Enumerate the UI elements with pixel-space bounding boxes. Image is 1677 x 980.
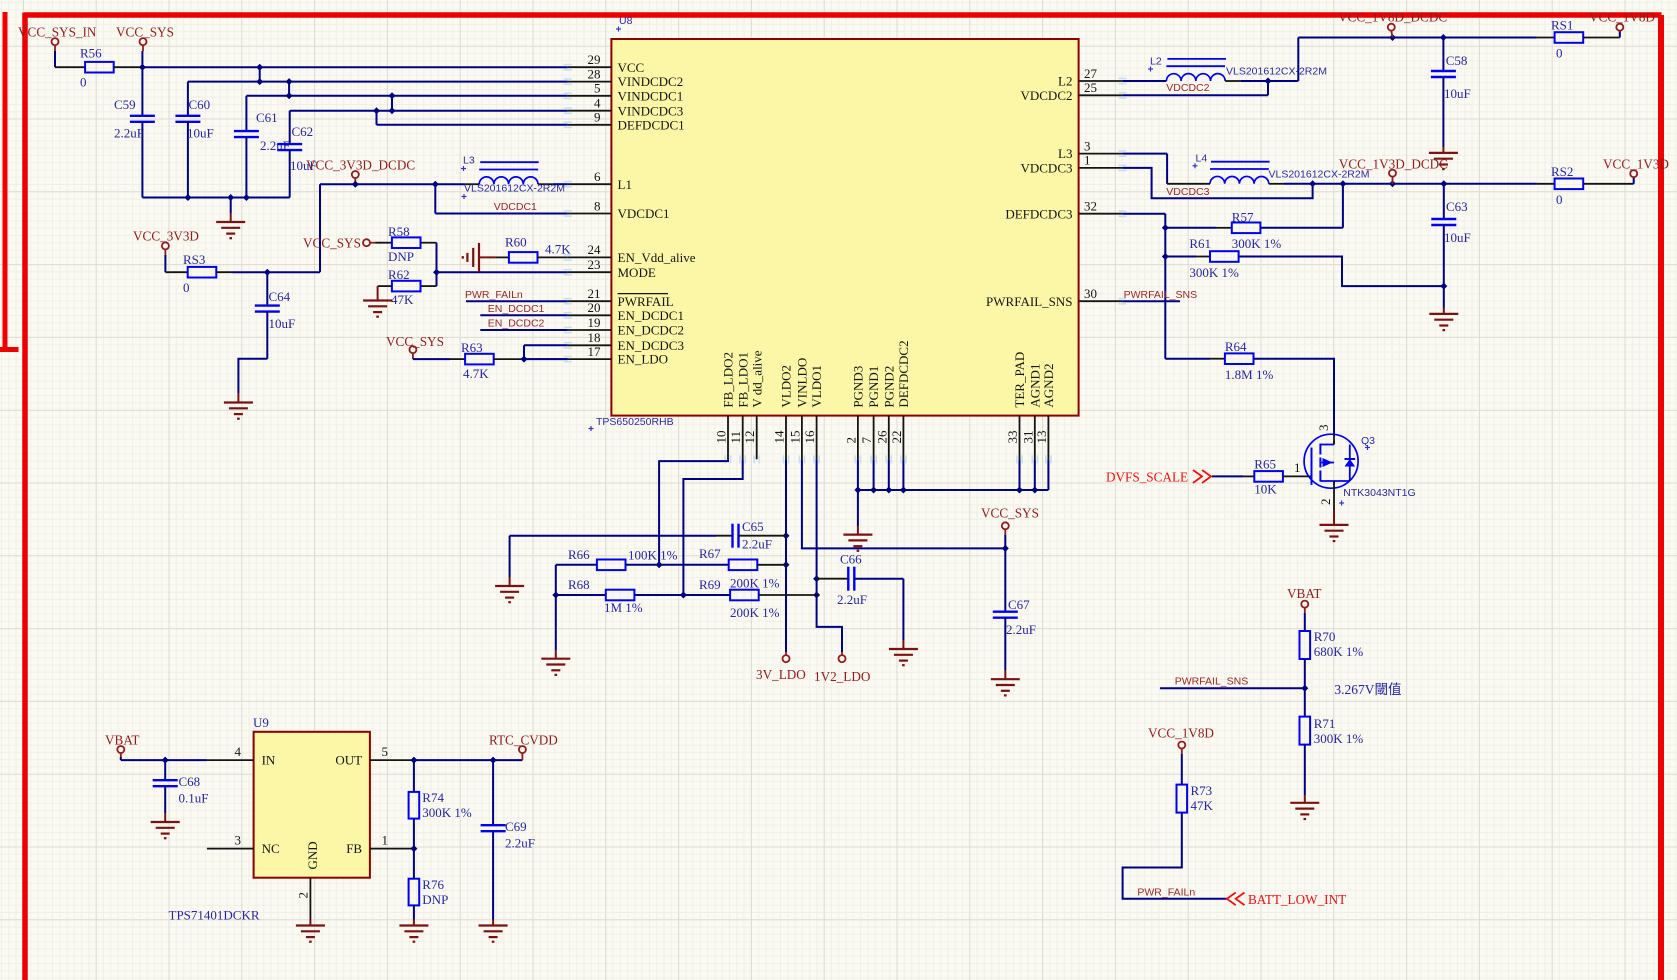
U8 pin 27 (L2) (1058, 66, 1126, 89)
svg-text:23: 23 (588, 257, 601, 272)
wire VCC_SYS to C67 (1004, 535, 1006, 612)
power port VCC_SYS (R63) (386, 334, 444, 359)
U8 pin 6 (L1) (564, 169, 632, 192)
svg-text:C63: C63 (1446, 199, 1468, 214)
wire pin drop (1047, 459, 1049, 490)
net label EN_DCDC1 (488, 303, 545, 315)
svg-text:4: 4 (235, 744, 242, 759)
net label EN_DCDC2 (488, 318, 545, 330)
svg-text:TPS71401DCKR: TPS71401DCKR (169, 908, 260, 923)
wire R56 to VCC_SYS node (114, 66, 143, 68)
U8 pin 10 (FB_LDO2) (714, 352, 736, 463)
resistor R65 (1254, 457, 1283, 497)
svg-text:47K: 47K (1191, 798, 1214, 813)
svg-text:R65: R65 (1254, 457, 1276, 472)
U8 pin 23 (MODE) (564, 257, 656, 280)
resistor R76 (409, 849, 449, 907)
svg-text:2.2uF: 2.2uF (505, 836, 535, 851)
svg-text:EN_DCDC2: EN_DCDC2 (488, 318, 545, 330)
wire RS1 to VCC_1V8D (1583, 31, 1620, 38)
wire R62 to ground (378, 286, 392, 300)
svg-text:VCC_1V8D: VCC_1V8D (1148, 725, 1214, 740)
svg-text:EN_DCDC1: EN_DCDC1 (488, 303, 545, 315)
svg-text:VINDCDC3: VINDCDC3 (618, 103, 684, 118)
junction (1031, 487, 1038, 494)
svg-text:NTK3043NT1G: NTK3043NT1G (1343, 487, 1415, 499)
svg-text:VINDCDC2: VINDCDC2 (618, 74, 684, 89)
ground (U9 GND) (296, 920, 325, 942)
wire tie VCC-VINDCDC2 (259, 67, 261, 81)
junction (1440, 180, 1447, 187)
junction (1309, 180, 1316, 187)
svg-text:VCC_1V8D: VCC_1V8D (1589, 10, 1655, 25)
svg-text:2: 2 (1318, 499, 1333, 506)
svg-text:R74: R74 (422, 790, 444, 805)
ground (R60, rotated) (463, 243, 496, 272)
U9 pin 1 (FB) (346, 833, 413, 857)
wire C66 to ground (902, 579, 904, 649)
svg-text:1V2_LDO: 1V2_LDO (814, 669, 870, 684)
junction (656, 561, 663, 568)
U8 pin 12 (V dd_alive) (742, 350, 764, 463)
svg-text:VCC: VCC (618, 60, 645, 75)
svg-text:RTC_CVDD: RTC_CVDD (489, 732, 558, 747)
power port VCC_1V8D (1589, 10, 1655, 31)
capacitor C67 (993, 597, 1036, 670)
resistor R63 (413, 340, 494, 381)
svg-text:FB_LDO2: FB_LDO2 (721, 352, 736, 408)
wire R66/R68 tie (555, 565, 557, 595)
svg-text:4.7K: 4.7K (463, 366, 489, 381)
junction (490, 757, 497, 764)
ground (C65) (495, 586, 524, 602)
svg-text:0: 0 (1556, 46, 1563, 61)
transistor Q3 NTK3043NT1G (1304, 425, 1416, 506)
resistor R74 (409, 760, 472, 820)
wire R58 to MODE node (421, 243, 437, 273)
resistor R58 (376, 224, 421, 264)
wire EN_DCDC1 stub (pin20) (480, 314, 568, 316)
U8 pin 16 (VLDO1) (802, 365, 824, 463)
capacitor C69 (481, 760, 535, 919)
power port VCC_3V3D (133, 229, 199, 256)
svg-text:0: 0 (183, 280, 190, 295)
svg-text:EN_DCDC1: EN_DCDC1 (618, 308, 684, 323)
U8 pin 9 (DEFDCDC1) (564, 110, 685, 133)
junction (410, 845, 417, 852)
svg-text:3: 3 (1084, 138, 1091, 153)
ground (R71) (1290, 803, 1319, 819)
wire DVFS to R65 (1212, 475, 1254, 477)
svg-text:PWR_FAILn: PWR_FAILn (1137, 886, 1195, 898)
svg-text:0.1uF: 0.1uF (179, 791, 209, 806)
svg-text:VCC_1V3D: VCC_1V3D (1603, 157, 1669, 172)
port BATT_LOW_INT (1227, 892, 1346, 907)
wire VDCDC1 row (pin8) (435, 213, 568, 215)
junction (885, 487, 892, 494)
svg-text:VCC_SYS: VCC_SYS (116, 25, 174, 40)
U8 pin 25 (VDCDC2) (1020, 80, 1126, 103)
junction (552, 592, 559, 599)
svg-text:9: 9 (594, 110, 601, 125)
svg-text:EN_DCDC2: EN_DCDC2 (618, 323, 684, 338)
svg-text:C67: C67 (1008, 597, 1030, 612)
wire PWRFAIL stub (pin21) (466, 300, 568, 302)
ground (C64) (224, 403, 253, 419)
junction (389, 92, 396, 99)
svg-text:R56: R56 (80, 46, 102, 61)
junction (227, 194, 234, 201)
svg-text:2.2uF: 2.2uF (114, 126, 144, 141)
wire pin drop (1019, 459, 1021, 490)
wire R67 to pin14 (757, 564, 786, 566)
svg-text:32: 32 (1084, 199, 1097, 214)
wire FB2 divider row (556, 564, 597, 566)
junction (184, 194, 191, 201)
svg-text:3.267V閾值: 3.267V閾值 (1334, 682, 1401, 697)
wire tie VINDCDC1-VINDCDC3 (391, 96, 393, 111)
svg-text:2.2uF: 2.2uF (1006, 622, 1036, 637)
svg-text:10: 10 (714, 431, 729, 444)
U8 pin 17 (EN_LDO) (564, 344, 668, 367)
junction (813, 592, 820, 599)
U9 pin 5 (OUT) (335, 744, 413, 768)
svg-text:R62: R62 (388, 267, 410, 282)
wire pin1 VDCDC3 loop (1122, 168, 1312, 198)
capacitor C58 (1431, 38, 1471, 148)
junction (1440, 283, 1447, 290)
power port VBAT (U9) (105, 732, 139, 757)
wire VCC_SYS_IN to R56 (55, 51, 85, 67)
svg-text:PGND1: PGND1 (866, 366, 881, 408)
U9 pin 4 (IN) (207, 744, 276, 768)
net label VDCDC1 (494, 201, 537, 213)
resistor R68 (568, 577, 643, 615)
svg-text:10uF: 10uF (269, 316, 296, 331)
power port VCC_1V8D (R73) (1148, 725, 1214, 754)
svg-text:10uF: 10uF (187, 126, 214, 141)
wire VCC_1V3D_DCDC rail (1284, 183, 1537, 185)
wire pin drop (1034, 459, 1036, 490)
junction (1301, 685, 1308, 692)
junction (139, 64, 146, 71)
svg-text:GND: GND (305, 841, 320, 869)
junction (680, 592, 687, 599)
wire PGND bus (858, 489, 1049, 491)
junction (870, 487, 877, 494)
junction (243, 194, 250, 201)
svg-text:0: 0 (80, 75, 87, 90)
svg-text:300K 1%: 300K 1% (1232, 236, 1282, 251)
wire pin30 stub (1122, 300, 1180, 302)
U8 pin 8 (VDCDC1) (564, 198, 670, 221)
svg-text:PWRFAIL_SNS: PWRFAIL_SNS (1124, 289, 1198, 301)
wire L2 out (1240, 38, 1298, 82)
svg-text:PWR_FAILn: PWR_FAILn (465, 289, 523, 301)
junction (256, 64, 263, 71)
wire R69 to pin16 (759, 594, 817, 596)
svg-text:680K 1%: 680K 1% (1314, 644, 1364, 659)
svg-text:5: 5 (594, 81, 601, 96)
svg-text:R67: R67 (699, 546, 721, 561)
wire pin10 to FB node (659, 459, 728, 565)
U8 pin 19 (EN_DCDC2) (564, 315, 684, 338)
svg-text:PGND3: PGND3 (851, 366, 866, 408)
junction (783, 532, 790, 539)
op-amp U9 TPS71401DCKR body (169, 715, 370, 923)
svg-text:VLDO1: VLDO1 (809, 365, 824, 408)
svg-text:R70: R70 (1314, 629, 1336, 644)
wire C58 to ground (1442, 147, 1444, 153)
svg-text:2.2uF: 2.2uF (742, 537, 772, 552)
U8 pin 11 (FB_LDO1) (728, 352, 750, 463)
wire C63 to ground (1443, 286, 1445, 314)
svg-text:R63: R63 (461, 340, 483, 355)
wire MODE row (pin23) (437, 271, 568, 273)
svg-text:10uF: 10uF (1444, 86, 1471, 101)
svg-text:VDCDC3: VDCDC3 (1166, 186, 1209, 198)
ground (cap bank) (216, 198, 245, 239)
ground (R76) (399, 926, 428, 942)
svg-text:EN_DCDC3: EN_DCDC3 (618, 338, 684, 353)
wire pin drop (888, 459, 890, 490)
svg-text:2: 2 (843, 437, 858, 444)
svg-text:IN: IN (262, 753, 276, 768)
svg-text:C66: C66 (840, 552, 862, 567)
wire VBAT to R70 (1304, 613, 1306, 631)
U8 pin 21 (PWRFAIL) (564, 286, 674, 309)
U8 pin 31 (AGND1) (1020, 364, 1042, 464)
net label PWRFAIL_SNS (1124, 289, 1198, 301)
svg-text:U8: U8 (619, 15, 633, 27)
junction (389, 107, 396, 114)
svg-text:R66: R66 (568, 547, 590, 562)
svg-text:L2: L2 (1150, 56, 1162, 68)
wire DEFDCDC1 row (pin9) (377, 124, 568, 126)
wire FB1 divider row (556, 594, 606, 596)
svg-text:RS3: RS3 (183, 252, 205, 267)
wire pin3 to L4 (1122, 154, 1167, 184)
power port VCC_SYS (C67) (981, 506, 1039, 536)
svg-text:47K: 47K (391, 292, 414, 307)
svg-text:C68: C68 (179, 774, 201, 789)
wire pin drop (902, 459, 904, 490)
svg-text:FB: FB (346, 841, 362, 856)
ground (R62) (363, 301, 392, 317)
junction (1162, 253, 1169, 260)
svg-text:EN_LDO: EN_LDO (618, 352, 669, 367)
ground (Q3) (1320, 525, 1349, 541)
op-amp U8 TPS650250RHB body (589, 15, 1079, 431)
wire pin drop (873, 459, 875, 490)
inductor L3 VLS201612CX-2R2M (461, 155, 565, 200)
svg-text:PGND2: PGND2 (881, 366, 896, 408)
svg-text:R57: R57 (1232, 210, 1254, 225)
svg-text:L2: L2 (1058, 74, 1072, 89)
wire C69 to ground (492, 920, 494, 926)
svg-text:AGND2: AGND2 (1041, 364, 1056, 408)
power port VBAT (divider) (1287, 586, 1321, 613)
svg-text:R76: R76 (422, 877, 444, 892)
svg-text:R64: R64 (1225, 339, 1247, 354)
svg-text:11: 11 (728, 431, 743, 444)
junction (256, 78, 263, 85)
wire R71 to ground (1304, 745, 1306, 803)
U9 pin 3 (NC) (207, 833, 280, 857)
inductor L4 VLS201612CX-2R2M (1167, 153, 1369, 184)
resistor R71 (1300, 716, 1364, 746)
U8 pin 1 (VDCDC3) (1020, 153, 1126, 176)
capacitor C61 (234, 96, 290, 198)
svg-text:17: 17 (588, 344, 602, 359)
capacitor C66 (817, 552, 904, 608)
svg-text:VLDO2: VLDO2 (779, 365, 794, 408)
wire tie VINDCDC3-DEFDCDC1 (376, 111, 378, 125)
wire pin15 VINLDO (802, 459, 1005, 548)
junction (162, 757, 169, 764)
svg-text:L4: L4 (1196, 153, 1208, 165)
wire pin27 to L2 (1122, 80, 1166, 82)
junction (433, 269, 440, 276)
svg-text:100K 1%: 100K 1% (628, 548, 678, 563)
wire R76 to ground (413, 905, 415, 925)
svg-text:0: 0 (1556, 192, 1563, 207)
wire VINDCDC2 row (pin28) (188, 81, 568, 83)
svg-text:16: 16 (802, 430, 817, 444)
ground (C68) (151, 822, 180, 838)
U8 pin 28 (VINDCDC2) (564, 66, 683, 89)
svg-text:1: 1 (382, 833, 389, 848)
svg-text:20: 20 (588, 300, 601, 315)
net label PWRFAIL_SNS (divider) (1175, 676, 1249, 688)
U8 pin 2 (PGND3) (843, 366, 865, 464)
junction (854, 487, 861, 494)
resistor RS1 (1537, 18, 1583, 61)
svg-text:1M 1%: 1M 1% (604, 600, 643, 615)
wire PWRFAIL_SNS row (1160, 687, 1305, 689)
junction (900, 487, 907, 494)
svg-text:VDCDC3: VDCDC3 (1020, 161, 1072, 176)
junction (1162, 224, 1169, 231)
svg-text:22: 22 (889, 431, 904, 444)
power port VCC_1V3D (1603, 157, 1669, 178)
resistor R67 (699, 546, 780, 591)
power port VCC_SYS (R58) (303, 235, 376, 250)
svg-text:R60: R60 (505, 235, 527, 250)
svg-text:VLS201612CX-2R2M: VLS201612CX-2R2M (464, 183, 565, 195)
inductor L2 VLS201612CX-2R2M (1148, 56, 1327, 82)
wire R63 to pin17 (494, 358, 568, 360)
svg-text:C62: C62 (292, 124, 314, 139)
svg-text:R58: R58 (388, 224, 410, 239)
wire R64 to Q3 drain (1254, 359, 1335, 435)
wire C64 to ground (238, 359, 267, 403)
wire C67 to ground (1004, 670, 1006, 679)
junction (264, 269, 271, 276)
junction (521, 356, 528, 363)
junction (813, 575, 820, 582)
wire tie VINDCDC2-VINDCDC1 (288, 82, 290, 96)
ground (C66) (889, 649, 918, 665)
svg-text:VINLDO: VINLDO (795, 358, 810, 408)
wire port to R73 (1181, 754, 1183, 785)
wire R61 to C63 gnd node (1239, 257, 1444, 287)
wire EN_DCDC3 (pin18) (524, 345, 568, 359)
wire pin11 to FB node (683, 459, 742, 595)
power port 1V2_LDO (814, 652, 870, 684)
junction (1339, 180, 1346, 187)
U8 pin 30 (PWRFAIL_SNS) (986, 286, 1126, 309)
resistor R64 (1165, 339, 1273, 382)
svg-text:12: 12 (742, 431, 757, 444)
ground (C67) (991, 679, 1020, 695)
junction (352, 181, 359, 188)
wire OUT row (414, 759, 523, 761)
net label VDCDC2 (1166, 82, 1209, 94)
wire VCC_3V3D_DCDC rail (320, 183, 465, 185)
svg-text:OUT: OUT (335, 753, 362, 768)
svg-text:24: 24 (588, 242, 602, 257)
svg-text:PWRFAIL_SNS: PWRFAIL_SNS (1175, 676, 1249, 688)
wire R60 to pin24 (538, 256, 568, 258)
svg-text:VCC_1V8D_DCDC: VCC_1V8D_DCDC (1338, 10, 1447, 25)
resistor RS2 (1537, 164, 1583, 207)
junction (1016, 487, 1023, 494)
wire VDCDC1 drop (434, 184, 436, 213)
label 3.267V threshold (1334, 682, 1401, 697)
svg-text:1.8M 1%: 1.8M 1% (1225, 367, 1274, 382)
junction (783, 561, 790, 568)
svg-text:VCC_3V3D: VCC_3V3D (133, 229, 199, 244)
U8 pin 24 (EN_Vdd_alive) (564, 242, 696, 265)
svg-text:RS2: RS2 (1551, 164, 1573, 179)
U8 pin 5 (VINDCDC1) (564, 81, 683, 104)
svg-text:V dd_alive: V dd_alive (749, 350, 764, 407)
wire rail to VDCDC1 (319, 184, 321, 272)
U8 pin 33 (TER_PAD) (1005, 352, 1027, 464)
ground (FB divider) (541, 659, 570, 675)
net label VDCDC3 (1166, 186, 1209, 198)
U8 pin 22 (DEFDCDC2) (889, 340, 911, 463)
svg-text:MODE: MODE (618, 265, 656, 280)
svg-text:1: 1 (1084, 153, 1091, 168)
svg-text:10K: 10K (1254, 482, 1277, 497)
svg-text:L1: L1 (618, 177, 632, 192)
wire RS2 to VCC_1V3D (1583, 177, 1634, 184)
power port VCC_SYS_IN (18, 25, 97, 52)
junction (410, 757, 417, 764)
wire Q3 source (1333, 481, 1335, 525)
svg-text:C65: C65 (742, 519, 764, 534)
svg-text:200K 1%: 200K 1% (730, 605, 780, 620)
svg-text:R71: R71 (1314, 716, 1336, 731)
wire pin32 drop (1122, 214, 1165, 359)
wire PGND to ground (857, 490, 859, 535)
junction (432, 181, 439, 188)
U8 pin 14 (VLDO2) (772, 365, 794, 463)
capacitor C59 (114, 67, 155, 197)
U8 pin 3 (L3) (1058, 138, 1126, 161)
U8 pin 26 (PGND2) (874, 366, 896, 464)
wire pin drop (857, 459, 859, 490)
svg-text:29: 29 (588, 52, 601, 67)
wire pin25 VDCDC2 (1122, 81, 1268, 95)
ground (C69) (479, 926, 508, 942)
svg-text:DEFDCDC3: DEFDCDC3 (1005, 206, 1072, 221)
wire pin16 VLDO1 (817, 459, 842, 652)
svg-text:DEFDCDC1: DEFDCDC1 (618, 117, 685, 132)
svg-text:28: 28 (588, 66, 601, 81)
